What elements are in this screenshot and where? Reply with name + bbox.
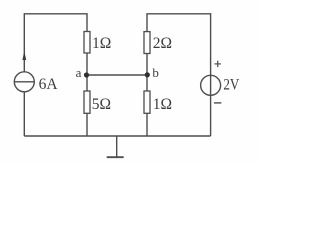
plus sign of V1	[215, 61, 221, 67]
svg-text:6A: 6A	[39, 76, 59, 93]
svg-text:1Ω: 1Ω	[153, 96, 172, 113]
svg-text:2Ω: 2Ω	[153, 35, 172, 52]
resistor 5ohm bottom-left	[84, 91, 90, 113]
wire left branch lower	[23, 92, 25, 136]
wire branch1 mid upper	[86, 53, 88, 75]
node a dot	[84, 72, 89, 77]
wire bottom rail	[24, 135, 210, 137]
svg-text:b: b	[152, 65, 159, 80]
svg-text:a: a	[76, 65, 82, 80]
wire branch1 bottom	[86, 113, 88, 136]
wire branch2 mid upper	[146, 54, 148, 76]
wire top-left segment	[24, 14, 87, 72]
svg-text:2V: 2V	[223, 76, 240, 93]
resistor 1ohm top-left	[84, 32, 90, 54]
current source I1 6A	[14, 72, 34, 92]
wire top-right segment	[147, 14, 211, 136]
svg-text:5Ω: 5Ω	[92, 96, 111, 113]
resistor 1ohm bottom-right	[144, 91, 150, 113]
wire branch2 bottom	[146, 113, 148, 136]
svg-text:1Ω: 1Ω	[92, 35, 111, 52]
node b dot	[145, 72, 150, 77]
wire branch1 mid lower	[86, 75, 88, 91]
voltage source V1 2V	[201, 75, 221, 95]
wire branch2 mid lower	[146, 75, 148, 91]
minus sign of V1	[214, 102, 221, 104]
current arrow	[22, 51, 26, 60]
ground	[107, 136, 124, 157]
wire middle a-b	[87, 74, 148, 76]
resistor 2ohm top-right	[144, 32, 150, 54]
